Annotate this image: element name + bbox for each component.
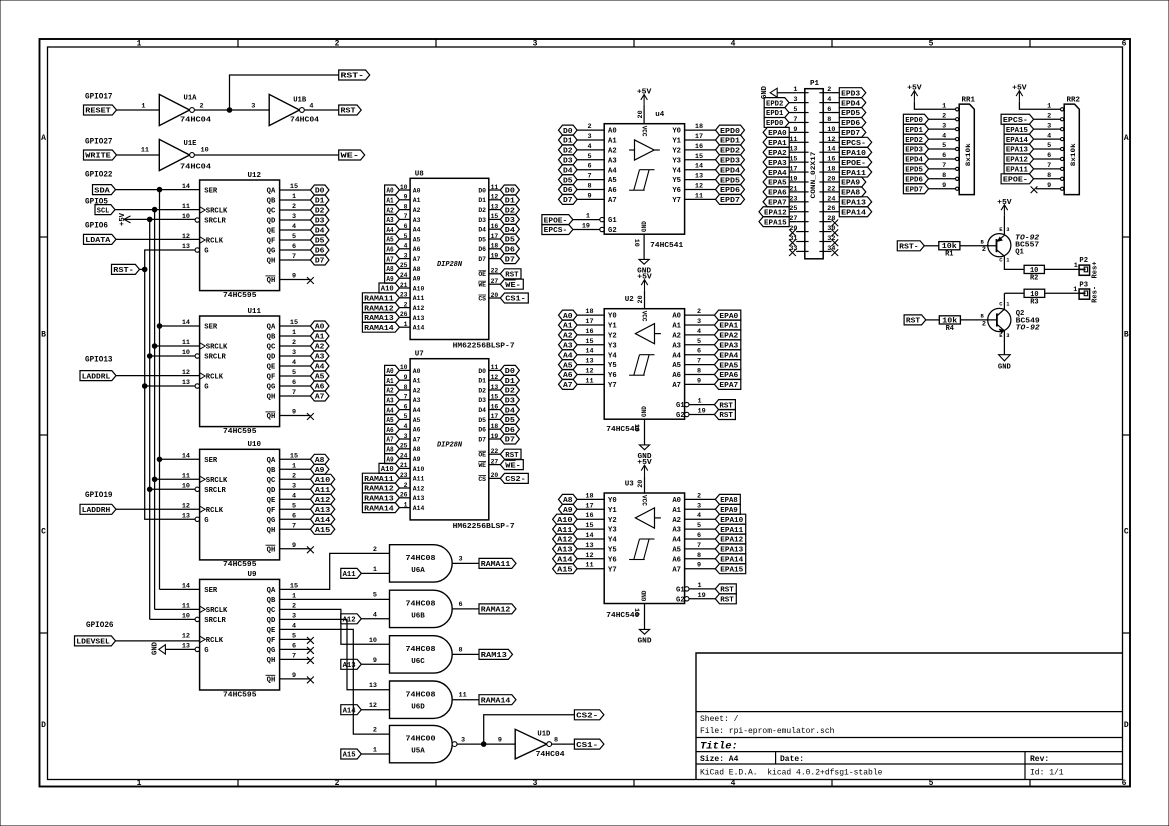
node EPOE- xyxy=(839,157,871,168)
ground xyxy=(761,85,777,99)
svg-text:QE: QE xyxy=(267,627,276,635)
svg-text:Y7: Y7 xyxy=(672,197,681,205)
wire xyxy=(484,715,575,744)
svg-text:P1: P1 xyxy=(810,80,820,88)
svg-text:A7: A7 xyxy=(672,382,681,390)
wire xyxy=(924,245,939,247)
node A2 xyxy=(385,205,400,216)
wire xyxy=(789,131,796,133)
svg-text:RST-: RST- xyxy=(899,244,919,252)
svg-text:3: 3 xyxy=(533,40,538,49)
svg-text:A10: A10 xyxy=(413,285,425,292)
wire xyxy=(685,139,716,141)
svg-text:A7: A7 xyxy=(672,566,681,574)
NAND gate U5A (74HC00) xyxy=(373,725,465,762)
wire xyxy=(644,419,646,445)
node D0 xyxy=(310,185,329,196)
svg-text:74HC540: 74HC540 xyxy=(606,612,640,620)
node D1 xyxy=(500,375,519,386)
wire xyxy=(399,487,410,489)
svg-text:A0: A0 xyxy=(672,313,681,321)
wire xyxy=(577,129,604,131)
wire xyxy=(280,648,311,650)
wire xyxy=(1034,128,1061,130)
svg-text:A11: A11 xyxy=(413,476,425,483)
svg-text:A15: A15 xyxy=(315,527,331,535)
svg-text:QH: QH xyxy=(267,657,276,665)
power +5V xyxy=(907,85,922,102)
node EPA14 xyxy=(1004,134,1034,145)
svg-text:A11: A11 xyxy=(343,571,357,579)
wire xyxy=(452,608,479,610)
svg-text:Q1: Q1 xyxy=(1015,249,1024,257)
node EPA1 xyxy=(714,320,740,331)
node A5 xyxy=(385,234,400,245)
wire xyxy=(280,189,311,191)
node EPA15 xyxy=(759,217,789,228)
AND gate U6C (74HC08) xyxy=(369,636,463,673)
svg-text:U6D: U6D xyxy=(411,703,425,711)
wire xyxy=(489,428,500,430)
node EPA1 xyxy=(763,137,789,148)
node RST- xyxy=(339,70,370,81)
wire SRCLK bus xyxy=(154,210,156,610)
node A5 xyxy=(310,371,329,382)
ground xyxy=(638,629,653,645)
wire xyxy=(1034,138,1061,140)
node D2 xyxy=(559,145,578,156)
wire xyxy=(1034,148,1061,150)
text GPIO19 xyxy=(85,491,113,500)
wire xyxy=(280,638,311,640)
svg-text:QA: QA xyxy=(267,587,276,595)
wire xyxy=(1004,292,1024,294)
no-connect xyxy=(789,239,796,246)
svg-text:A11: A11 xyxy=(413,295,425,302)
wire xyxy=(573,229,600,231)
svg-text:13: 13 xyxy=(182,379,190,387)
svg-text:Sheet: /: Sheet: / xyxy=(700,715,739,724)
svg-text:A8: A8 xyxy=(413,266,421,273)
power +5V xyxy=(997,199,1012,216)
svg-text:GND: GND xyxy=(638,638,653,646)
wire xyxy=(832,151,840,153)
power +5V xyxy=(637,89,652,106)
svg-text:EPA15: EPA15 xyxy=(764,219,787,227)
wire xyxy=(280,458,311,460)
wire xyxy=(399,389,410,391)
node A7 xyxy=(310,391,329,402)
svg-text:QF: QF xyxy=(267,238,276,246)
node A4 xyxy=(385,405,400,416)
svg-text:8: 8 xyxy=(827,116,831,124)
svg-text:13: 13 xyxy=(182,243,190,251)
svg-text:RAM13: RAM13 xyxy=(481,652,508,660)
node EPD7 xyxy=(903,184,928,195)
no-connect xyxy=(307,277,314,284)
wire xyxy=(929,138,956,140)
wire xyxy=(685,189,716,191)
svg-text:QC: QC xyxy=(267,477,276,485)
wire xyxy=(914,102,955,110)
node A9 xyxy=(385,273,400,284)
svg-text:Y1: Y1 xyxy=(608,323,617,331)
wire xyxy=(685,314,715,316)
node A0 xyxy=(559,310,578,321)
svg-text:QH: QH xyxy=(267,258,276,266)
wire xyxy=(577,324,604,326)
svg-text:EPA15: EPA15 xyxy=(720,566,743,574)
svg-text:CS: CS xyxy=(478,476,486,483)
junction xyxy=(152,477,157,482)
node A9 xyxy=(559,504,578,515)
svg-text:3: 3 xyxy=(459,555,463,563)
svg-text:SRCLR: SRCLR xyxy=(204,487,226,495)
power +5V xyxy=(637,459,652,476)
svg-text:G: G xyxy=(204,384,208,392)
svg-text:12: 12 xyxy=(369,702,377,710)
wire xyxy=(685,568,716,570)
node RAMA12 xyxy=(362,483,399,494)
connector P3 xyxy=(1073,282,1099,303)
svg-text:1: 1 xyxy=(137,779,142,788)
svg-text:A3: A3 xyxy=(672,527,681,535)
svg-text:D7: D7 xyxy=(505,437,515,445)
svg-text:8x10k: 8x10k xyxy=(1070,143,1078,166)
svg-text:A4: A4 xyxy=(672,352,681,360)
wire xyxy=(489,477,500,479)
svg-text:QH: QH xyxy=(267,277,276,285)
svg-text:Date:: Date: xyxy=(780,755,804,764)
svg-text:10: 10 xyxy=(182,213,190,221)
svg-text:RESET: RESET xyxy=(85,108,111,116)
node EPA7 xyxy=(763,197,789,208)
ground xyxy=(637,259,652,275)
wire xyxy=(685,354,715,356)
svg-text:GND: GND xyxy=(152,641,160,655)
wire xyxy=(399,238,410,240)
svg-text:QH: QH xyxy=(267,546,276,554)
node EPA6 xyxy=(763,187,789,198)
svg-text:RST: RST xyxy=(719,412,733,420)
node A3 xyxy=(385,395,400,406)
node A10 xyxy=(379,283,399,294)
node A14 xyxy=(310,514,334,525)
svg-text:QD: QD xyxy=(267,354,276,362)
wire xyxy=(399,399,410,401)
svg-text:GPIO22: GPIO22 xyxy=(85,171,113,180)
svg-text:Size: A4: Size: A4 xyxy=(700,755,739,764)
node A7 xyxy=(559,379,578,390)
wire xyxy=(685,548,716,550)
node A3 xyxy=(559,340,578,351)
wire xyxy=(689,588,715,590)
node RAMA11 xyxy=(479,558,516,569)
svg-text:WE-: WE- xyxy=(341,153,360,161)
svg-text:U9: U9 xyxy=(248,571,258,579)
svg-text:Y3: Y3 xyxy=(608,342,617,350)
wire xyxy=(116,508,200,510)
junction xyxy=(157,187,162,192)
wire xyxy=(685,334,715,336)
svg-text:Y4: Y4 xyxy=(608,352,617,360)
wire xyxy=(489,399,500,401)
svg-text:U1D: U1D xyxy=(537,730,551,738)
node EPA13 xyxy=(715,544,745,555)
svg-text:VCC: VCC xyxy=(640,495,647,506)
svg-text:GPIO6: GPIO6 xyxy=(85,222,108,231)
node D7 xyxy=(310,255,329,266)
svg-text:A1: A1 xyxy=(413,378,421,385)
junction xyxy=(157,324,162,329)
svg-text:A6: A6 xyxy=(413,246,421,253)
resistor R4 (10k) xyxy=(939,316,960,333)
svg-text:14: 14 xyxy=(182,452,190,460)
svg-text:Y2: Y2 xyxy=(608,333,617,341)
node A4 xyxy=(559,350,578,361)
junction xyxy=(481,742,486,747)
svg-text:QH: QH xyxy=(267,677,276,685)
wire xyxy=(789,191,796,193)
wire xyxy=(280,229,311,231)
svg-text:A6: A6 xyxy=(413,427,421,434)
svg-text:10: 10 xyxy=(632,239,640,247)
node D3 xyxy=(500,395,519,406)
wire xyxy=(399,477,410,479)
no-connect xyxy=(307,546,314,553)
node D0 xyxy=(500,185,519,196)
svg-text:RST: RST xyxy=(906,318,921,326)
svg-text:74HC595: 74HC595 xyxy=(223,428,257,436)
wire xyxy=(685,558,716,560)
svg-text:Y3: Y3 xyxy=(672,157,681,165)
svg-text:D7: D7 xyxy=(478,436,486,443)
svg-text:SRCLR: SRCLR xyxy=(204,617,226,625)
resistor R1 (10k) xyxy=(939,242,960,259)
svg-text:Y7: Y7 xyxy=(608,382,617,390)
wire xyxy=(280,239,311,241)
svg-text:4: 4 xyxy=(731,779,736,788)
svg-text:QD: QD xyxy=(267,487,276,495)
node A10 xyxy=(553,514,578,525)
svg-text:HM62256BLSP-7: HM62256BLSP-7 xyxy=(453,343,515,351)
wire xyxy=(1034,118,1061,120)
svg-text:CS1-: CS1- xyxy=(505,296,526,304)
svg-text:G1: G1 xyxy=(676,402,685,410)
node A11 xyxy=(553,524,578,535)
node WRITE xyxy=(84,150,117,161)
svg-text:A1: A1 xyxy=(608,138,617,146)
svg-text:QG: QG xyxy=(267,384,276,392)
svg-text:11: 11 xyxy=(182,602,190,610)
svg-text:GND: GND xyxy=(641,221,648,232)
node A0 xyxy=(385,185,400,196)
node WE- xyxy=(500,279,523,290)
svg-text:2: 2 xyxy=(335,779,340,788)
svg-text:+5V: +5V xyxy=(637,274,652,282)
wire xyxy=(552,743,575,745)
svg-text:D4: D4 xyxy=(478,227,486,234)
svg-text:A15: A15 xyxy=(557,566,573,574)
power +5V xyxy=(119,212,131,226)
node EPA13 xyxy=(1004,144,1034,155)
wire xyxy=(685,364,715,366)
node EPA5 xyxy=(763,177,789,188)
svg-text:D0: D0 xyxy=(478,187,486,194)
wire xyxy=(280,478,311,480)
svg-text:Y2: Y2 xyxy=(608,517,617,525)
svg-text:Y5: Y5 xyxy=(608,362,617,370)
junction xyxy=(152,207,157,212)
svg-text:QB: QB xyxy=(267,334,276,342)
svg-text:6: 6 xyxy=(1122,40,1127,49)
svg-text:C: C xyxy=(41,528,46,537)
wire xyxy=(399,287,410,289)
resistor R3 (10) xyxy=(1024,289,1045,306)
node EPD0 xyxy=(716,125,745,136)
wire xyxy=(280,678,311,680)
wire xyxy=(399,326,410,328)
node A2 xyxy=(385,385,400,396)
svg-text:RST: RST xyxy=(341,108,357,116)
node A8 xyxy=(385,444,400,455)
svg-text:U7: U7 xyxy=(415,351,424,359)
node D2 xyxy=(500,385,519,396)
wire xyxy=(280,415,311,417)
svg-text:WE-: WE- xyxy=(505,282,521,290)
wire xyxy=(489,199,500,201)
node RAM13 xyxy=(479,649,513,660)
svg-text:RST: RST xyxy=(505,452,519,460)
svg-text:2: 2 xyxy=(827,86,831,94)
svg-text:74HC08: 74HC08 xyxy=(406,555,437,563)
svg-text:RCLK: RCLK xyxy=(206,238,224,246)
svg-text:14: 14 xyxy=(182,183,190,191)
svg-text:U6B: U6B xyxy=(411,613,425,621)
wire xyxy=(929,188,956,190)
svg-text:OE: OE xyxy=(478,271,486,278)
svg-text:1: 1 xyxy=(137,40,142,49)
wire xyxy=(577,538,604,540)
svg-text:HM62256BLSP-7: HM62256BLSP-7 xyxy=(453,523,515,531)
wire xyxy=(280,209,311,211)
svg-text:1: 1 xyxy=(1074,262,1078,270)
svg-text:U1E: U1E xyxy=(184,140,198,148)
svg-text:A8: A8 xyxy=(413,446,421,453)
no-connect xyxy=(1031,186,1038,193)
wire xyxy=(685,129,716,131)
wire xyxy=(280,355,311,357)
wire xyxy=(577,374,604,376)
no-connect xyxy=(307,657,314,664)
node EPD1 xyxy=(716,135,745,146)
wire xyxy=(160,458,200,460)
node D6 xyxy=(500,424,519,435)
svg-text:Y4: Y4 xyxy=(672,167,681,175)
svg-text:U10: U10 xyxy=(248,441,262,449)
svg-text:QA: QA xyxy=(267,457,276,465)
svg-text:LDEVSEL: LDEVSEL xyxy=(76,639,110,647)
wire xyxy=(194,109,269,111)
node EPA4 xyxy=(714,350,740,361)
svg-text:File: rpi-eprom-emulator.sch: File: rpi-eprom-emulator.sch xyxy=(700,727,835,736)
svg-text:QB: QB xyxy=(267,198,276,206)
svg-text:A10: A10 xyxy=(413,466,425,473)
node D6 xyxy=(559,185,578,196)
svg-text:QF: QF xyxy=(267,637,276,645)
node CS2- xyxy=(574,710,604,721)
title block xyxy=(696,653,1123,780)
wire xyxy=(1003,337,1005,354)
node RST- xyxy=(897,241,924,252)
wire xyxy=(789,141,796,143)
wire xyxy=(399,258,410,260)
text GPIO22 xyxy=(85,171,113,180)
wire xyxy=(155,345,200,347)
wire xyxy=(577,149,604,151)
junction xyxy=(142,267,147,272)
wire xyxy=(399,409,410,411)
node EPD0 xyxy=(903,114,928,125)
resistor R2 (10) xyxy=(1024,265,1044,282)
svg-text:14: 14 xyxy=(182,319,190,327)
svg-text:Id: 1/1: Id: 1/1 xyxy=(1030,769,1064,778)
node EPA3 xyxy=(763,157,789,168)
svg-text:A5: A5 xyxy=(413,236,421,243)
wire xyxy=(960,245,997,247)
wire xyxy=(452,653,479,655)
wire xyxy=(577,364,604,366)
node EPA7 xyxy=(714,379,740,390)
svg-text:U6A: U6A xyxy=(411,567,425,575)
node A11 xyxy=(341,568,362,579)
wire xyxy=(280,365,311,367)
svg-text:D7: D7 xyxy=(478,256,486,263)
svg-text:Res+: Res+ xyxy=(1092,262,1100,279)
wire xyxy=(929,178,956,180)
svg-text:RR1: RR1 xyxy=(962,96,976,104)
node A1 xyxy=(310,331,329,342)
wire xyxy=(140,268,145,270)
node EPA15 xyxy=(1004,124,1034,135)
svg-text:A12: A12 xyxy=(413,485,425,492)
svg-text:A5: A5 xyxy=(672,362,681,370)
svg-text:U3: U3 xyxy=(625,481,635,489)
node EPD2 xyxy=(903,134,928,145)
RAM U8 (HM62256BLSP-7) xyxy=(400,170,515,350)
svg-text:10: 10 xyxy=(182,612,190,620)
node EPD3 xyxy=(903,144,928,155)
node EPA4 xyxy=(763,167,789,178)
svg-text:13: 13 xyxy=(369,682,377,690)
junction xyxy=(157,457,162,462)
shift register U10 (74HC595) xyxy=(182,441,298,569)
svg-text:13: 13 xyxy=(182,642,190,650)
node RST xyxy=(714,410,735,421)
svg-text:Title:: Title: xyxy=(700,741,738,753)
wire xyxy=(115,209,200,211)
node LADDRL xyxy=(80,371,116,382)
wire xyxy=(685,179,716,181)
wire xyxy=(1004,256,1024,269)
inverter U1D (74HC04) xyxy=(498,729,565,759)
wire xyxy=(280,658,311,660)
node D2 xyxy=(500,205,519,216)
svg-text:+5V: +5V xyxy=(997,199,1012,207)
svg-text:QB: QB xyxy=(267,597,276,605)
node A5 xyxy=(559,360,578,371)
wire xyxy=(577,518,604,520)
